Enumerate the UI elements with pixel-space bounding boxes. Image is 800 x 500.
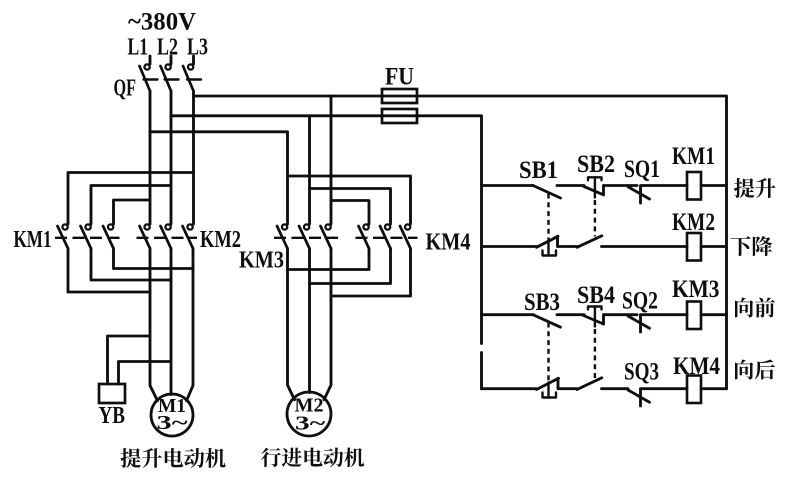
wire control left rail lower part <box>480 353 483 389</box>
label SB2 <box>577 151 615 178</box>
label SQ2 <box>622 288 658 315</box>
wire row2 rail a <box>482 245 537 248</box>
wire KM1 pole2 top to phase V <box>91 186 171 225</box>
wire row3 rail b <box>557 313 584 316</box>
label KM1 (main contacts) <box>14 227 52 253</box>
circuit breaker QF pole L1 <box>140 56 158 91</box>
svg-text:SB2: SB2 <box>577 151 615 178</box>
wire motor M2 lead U <box>288 249 295 400</box>
wire drop to KM3 pole 2 <box>308 116 311 224</box>
wire KM1 pole3 bottom to motor lead W <box>114 249 194 269</box>
svg-text:L3: L3 <box>187 34 208 60</box>
label FU <box>385 64 414 91</box>
contactor coil KM2 <box>687 233 701 261</box>
svg-text:KM3: KM3 <box>239 248 284 274</box>
fuse FU element 1 <box>382 89 417 103</box>
limit switch SQ3 NC contact <box>628 389 650 406</box>
contactor coil KM3 <box>687 302 701 330</box>
contactor KM1 main contact pole 2 <box>81 224 92 248</box>
label KM2 (coil) <box>672 209 715 236</box>
wire motor M1 lead U <box>150 249 158 401</box>
wire row4 rail d <box>642 387 688 390</box>
svg-text:~380V: ~380V <box>128 9 196 36</box>
circuit breaker QF pole L3 <box>183 56 201 91</box>
svg-text:FU: FU <box>385 64 414 91</box>
wire row1 rail e <box>701 184 727 187</box>
wire KM4 pole2 bottom to M2 lead V <box>310 249 391 284</box>
pushbutton SB1 NO contact <box>533 186 561 199</box>
wire row2 rail d <box>701 245 727 248</box>
svg-text:SQ2: SQ2 <box>622 288 658 315</box>
pushbutton SB4 NO contact (row4) <box>577 378 602 390</box>
wire motor M2 lead W <box>324 249 331 400</box>
svg-text:YB: YB <box>99 403 126 429</box>
wire row4 rail e <box>701 387 727 390</box>
svg-text:SQ3: SQ3 <box>624 359 659 386</box>
wire KM1 pole1 top to phase W <box>68 173 194 225</box>
pushbutton SB1 NC contact (row2) <box>537 236 559 255</box>
contactor coil KM4 <box>687 376 701 404</box>
label SB4 <box>577 282 615 309</box>
brake coil YB <box>99 384 125 403</box>
label QF <box>114 76 137 102</box>
label lower (xia jiang) <box>731 236 772 256</box>
svg-text:3~: 3~ <box>295 414 326 435</box>
motor M2 <box>287 392 331 436</box>
wire motor M2 lead V <box>308 249 311 393</box>
motor M1 <box>151 394 193 436</box>
wire KM4 pole1 top to phase W <box>331 201 369 225</box>
terminal L2 <box>157 34 178 60</box>
wire bus U to KM3 pole 1 <box>150 132 288 224</box>
svg-text:SB4: SB4 <box>577 282 615 309</box>
wire bus V to FU and control left rail <box>171 116 482 344</box>
wire row1 rail c <box>604 184 638 187</box>
wire row4 rail b <box>559 387 578 390</box>
svg-text:L2: L2 <box>157 34 178 60</box>
label KM1 (coil) <box>672 143 715 170</box>
wire row1 rail d <box>642 184 688 187</box>
label backward (xiang hou) <box>735 359 775 379</box>
terminal L1 <box>128 34 149 60</box>
SB3 linkage dashes <box>547 323 549 382</box>
pushbutton SB2 NO contact (row2) <box>577 236 602 248</box>
label ~380V supply <box>128 9 196 36</box>
limit switch SQ1 NC contact <box>628 186 650 204</box>
svg-text:KM1: KM1 <box>672 143 715 170</box>
wire row1 rail b <box>557 184 584 187</box>
terminal L3 <box>187 34 208 60</box>
wire row1 rail a <box>482 184 534 187</box>
label YB <box>99 403 126 429</box>
wire KM4 pole1 bottom to M2 lead U <box>288 249 370 270</box>
wire YB terminal 1 to lead U <box>108 336 151 384</box>
label KM4 (coil) <box>673 353 720 380</box>
wire row2 rail b <box>558 245 577 248</box>
label SQ1 <box>624 156 660 183</box>
label lifting motor <box>121 448 226 468</box>
KM2 linkage dashed line <box>137 237 198 239</box>
wire KM1 pole3 top to phase U <box>114 200 151 224</box>
label SB3 <box>524 289 560 316</box>
svg-text:QF: QF <box>114 76 137 102</box>
contactor coil KM1 <box>687 172 701 200</box>
wire bus W to FU and control right rail <box>194 96 727 389</box>
svg-text:KM3: KM3 <box>672 276 720 303</box>
wire motor M1 lead V <box>170 249 173 395</box>
label KM3 (main contacts) <box>239 248 284 274</box>
wire KM4 pole3 top to phase U <box>288 176 411 224</box>
svg-text:L1: L1 <box>128 34 149 60</box>
pushbutton SB4 NC contact <box>584 307 604 327</box>
wire KM1 pole1 bottom to motor lead U <box>68 249 150 293</box>
svg-text:SQ1: SQ1 <box>624 156 660 183</box>
SB1 linkage dashes <box>547 194 549 240</box>
SB4 linkage dashes <box>594 329 596 379</box>
wire KM4 pole3 bottom to M2 lead W <box>331 249 411 297</box>
fuse FU element 2 <box>382 109 417 123</box>
wire phase W from QF to KM2 pole 3 <box>192 91 195 224</box>
label SQ3 <box>624 359 659 386</box>
label lift (ti sheng) <box>734 178 776 198</box>
svg-text:SB1: SB1 <box>519 157 558 184</box>
svg-text:SB3: SB3 <box>524 289 560 316</box>
label SB1 <box>519 157 558 184</box>
wire row3 rail d <box>642 313 688 316</box>
contactor KM4 main contact pole 3 <box>400 224 411 248</box>
wire phase U from QF to KM2 pole 1 <box>149 91 152 224</box>
pushbutton SB3 NC contact (row4) <box>537 378 559 397</box>
contactor KM3 main contact pole 1 <box>277 224 288 248</box>
wire phase V from QF to KM2 pole 2 <box>170 91 173 224</box>
wire row3 rail c <box>604 313 638 316</box>
SB2 linkage dashes <box>594 200 596 237</box>
KM3 linkage dashed line <box>274 237 338 239</box>
wire drop to KM3 pole 3 <box>330 96 333 224</box>
wire motor M1 lead W <box>187 249 194 401</box>
contactor KM2 main contact pole 3 <box>183 224 194 248</box>
contactor KM2 main contact pole 2 <box>161 224 172 248</box>
contactor KM3 main contact pole 2 <box>299 224 310 248</box>
wire KM1 pole2 bottom to motor lead V <box>91 249 171 281</box>
label forward (xiang qian) <box>735 297 775 317</box>
wire row2 rail c <box>602 245 688 248</box>
svg-text:KM4: KM4 <box>426 230 471 256</box>
svg-text:3~: 3~ <box>157 413 189 434</box>
svg-text:KM2: KM2 <box>200 227 241 253</box>
pushbutton SB2 NC contact <box>584 177 604 197</box>
label travel motor <box>261 448 364 468</box>
wire row4 rail a <box>482 387 537 390</box>
label KM3 (coil) <box>672 276 720 303</box>
contactor KM4 main contact pole 1 <box>359 224 370 248</box>
contactor KM3 main contact pole 3 <box>321 224 332 248</box>
pushbutton SB3 NO contact <box>533 315 561 328</box>
wire row3 rail e <box>701 313 727 316</box>
contactor KM2 main contact pole 1 <box>140 224 151 248</box>
svg-text:KM1: KM1 <box>14 227 52 253</box>
wire row3 rail a <box>482 313 534 316</box>
label KM4 (main contacts) <box>426 230 471 256</box>
wire KM4 pole2 top to phase V <box>310 189 391 225</box>
contactor KM4 main contact pole 2 <box>380 224 391 248</box>
limit switch SQ2 NC contact <box>628 315 650 332</box>
contactor KM1 main contact pole 1 <box>58 224 69 248</box>
wire row4 rail c <box>602 387 629 390</box>
wire YB terminal 2 to lead V <box>119 362 172 385</box>
label KM2 (main contacts) <box>200 227 241 253</box>
circuit breaker QF pole L2 <box>161 56 179 91</box>
contactor KM1 main contact pole 3 <box>103 224 114 248</box>
KM1 linkage dashed line <box>55 237 121 239</box>
KM4 linkage dashed line <box>356 237 418 239</box>
